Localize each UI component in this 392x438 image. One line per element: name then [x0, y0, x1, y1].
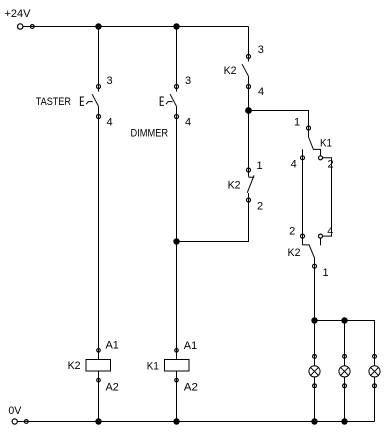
wire branch2 lower [176, 371, 178, 422]
net label 0V [8, 405, 22, 417]
relay contact K2 changeover 1-2-4 [301, 234, 323, 268]
pin label 1 (K1 contact) [294, 117, 300, 129]
pushbutton DIMMER contact 3-4 [170, 85, 178, 119]
pin label 1 (K2 right contact) [323, 267, 329, 279]
label K2 (right contact) [288, 247, 301, 259]
svg-text:1: 1 [323, 267, 329, 279]
junction node 0V/lamp1 [311, 418, 317, 424]
label DIMMER [131, 128, 169, 140]
junction node branch3 split [245, 107, 252, 114]
svg-text:2: 2 [289, 226, 295, 238]
pin label 4 (K2 right contact) [327, 226, 333, 238]
svg-text:K1: K1 [320, 138, 332, 150]
wire lamp2 branch [344, 321, 346, 422]
wire junction to K1 contact [249, 111, 309, 138]
junction node 0V/lamp2 [341, 418, 347, 424]
svg-text:K1: K1 [147, 361, 159, 373]
svg-text:K2: K2 [228, 180, 241, 192]
lamp E3 [369, 355, 380, 388]
svg-text:2: 2 [257, 201, 263, 213]
wire branch3 to junction [248, 77, 250, 111]
wire lamp rail top [315, 321, 375, 422]
pin label 4 (K2 NO) [258, 86, 264, 98]
svg-text:A1: A1 [106, 340, 119, 352]
junction node 0V/branch1 [95, 418, 101, 424]
svg-text:+24V: +24V [5, 8, 32, 20]
pin label 2 (K1 contact) [328, 159, 334, 171]
pin label 3 (K2 NO) [258, 44, 264, 56]
wire K1 pin4 to K2 pin2 [302, 149, 304, 245]
pin label A1 (K2 coil) [106, 340, 119, 352]
actuator symbol E (TASTER) [80, 97, 92, 105]
wire branch1 upper [98, 27, 100, 92]
wire lamp1 branch [314, 321, 316, 422]
svg-text:4: 4 [107, 117, 113, 129]
svg-text:4: 4 [258, 86, 264, 98]
actuator symbol E (DIMMER) [160, 97, 172, 105]
svg-text:A2: A2 [106, 382, 119, 394]
wire branch1 middle [98, 107, 100, 360]
svg-text:3: 3 [185, 75, 191, 87]
pin label 1 (K2 NC) [257, 160, 263, 172]
pin label A2 (K1 coil) [184, 382, 198, 394]
wire branch3 upper [248, 27, 250, 62]
lamp E1 [309, 355, 320, 388]
svg-text:TASTER: TASTER [36, 96, 71, 108]
wire branch2 upper [176, 27, 178, 92]
label K1 (coil) [147, 361, 159, 373]
lamp E2 [339, 355, 350, 388]
label K2 (NC contact) [228, 180, 241, 192]
pin label 4 (TASTER) [107, 117, 113, 129]
wire branch3 junction to NC contact [248, 111, 250, 177]
svg-text:4: 4 [185, 117, 191, 129]
terminal +24V [18, 24, 35, 29]
svg-text:2: 2 [328, 159, 334, 171]
wire branch2 middle [176, 107, 178, 360]
junction node 0V/branch2 [173, 418, 179, 424]
net label +24V [5, 8, 32, 20]
relay contact K2 NO 3-4 [242, 55, 250, 89]
pin label 4 (DIMMER) [185, 117, 191, 129]
label K2 (upper contact) [224, 65, 237, 77]
pin label 4 (K1 contact) [291, 159, 297, 171]
pin label 2 (K2 right contact) [289, 226, 295, 238]
relay contact K2 NC 1-2 [247, 168, 255, 202]
svg-text:1: 1 [257, 160, 263, 172]
relay contact K1 changeover 1-2-4 [301, 126, 323, 160]
label K1 (contact) [320, 138, 332, 150]
relay coil K1 [165, 349, 190, 382]
pin label 3 (DIMMER) [185, 75, 191, 87]
svg-text:4: 4 [291, 159, 297, 171]
pushbutton TASTER contact 3-4 [92, 85, 100, 119]
svg-text:0V: 0V [8, 405, 22, 417]
svg-text:DIMMER: DIMMER [131, 128, 169, 140]
svg-text:3: 3 [107, 75, 113, 87]
pin label A2 (K2 coil) [106, 382, 119, 394]
junction node branch2/branch3 [173, 238, 179, 244]
wire branch1 lower [98, 371, 100, 422]
junction node lamp rail 2 [341, 317, 347, 323]
svg-text:3: 3 [258, 44, 264, 56]
wire K1 pin2 to K2 pin4 [323, 158, 332, 236]
label TASTER [36, 96, 71, 108]
svg-text:4: 4 [327, 226, 333, 238]
junction node rail/branch2 [173, 23, 179, 29]
junction node rail/branch1 [95, 23, 101, 29]
pin label A1 (K1 coil) [184, 340, 197, 352]
svg-text:A1: A1 [184, 340, 197, 352]
wire K2 pin1 to lamp rail [314, 258, 316, 321]
svg-text:A2: A2 [184, 382, 198, 394]
terminal 0V [12, 419, 28, 424]
svg-text:K2: K2 [68, 360, 81, 372]
svg-text:1: 1 [294, 117, 300, 129]
wire 0V rail [17, 421, 374, 423]
pin label 2 (K2 NC) [257, 201, 263, 213]
svg-text:K2: K2 [288, 247, 301, 259]
junction node lamp rail 1 [311, 317, 317, 323]
wire branch3 lower to branch2 [177, 193, 249, 242]
wire +24V rail [23, 26, 248, 28]
svg-text:K2: K2 [224, 65, 237, 77]
label K2 (coil) [68, 360, 81, 372]
pin label 3 (TASTER) [107, 75, 113, 87]
relay coil K2 [86, 349, 111, 382]
